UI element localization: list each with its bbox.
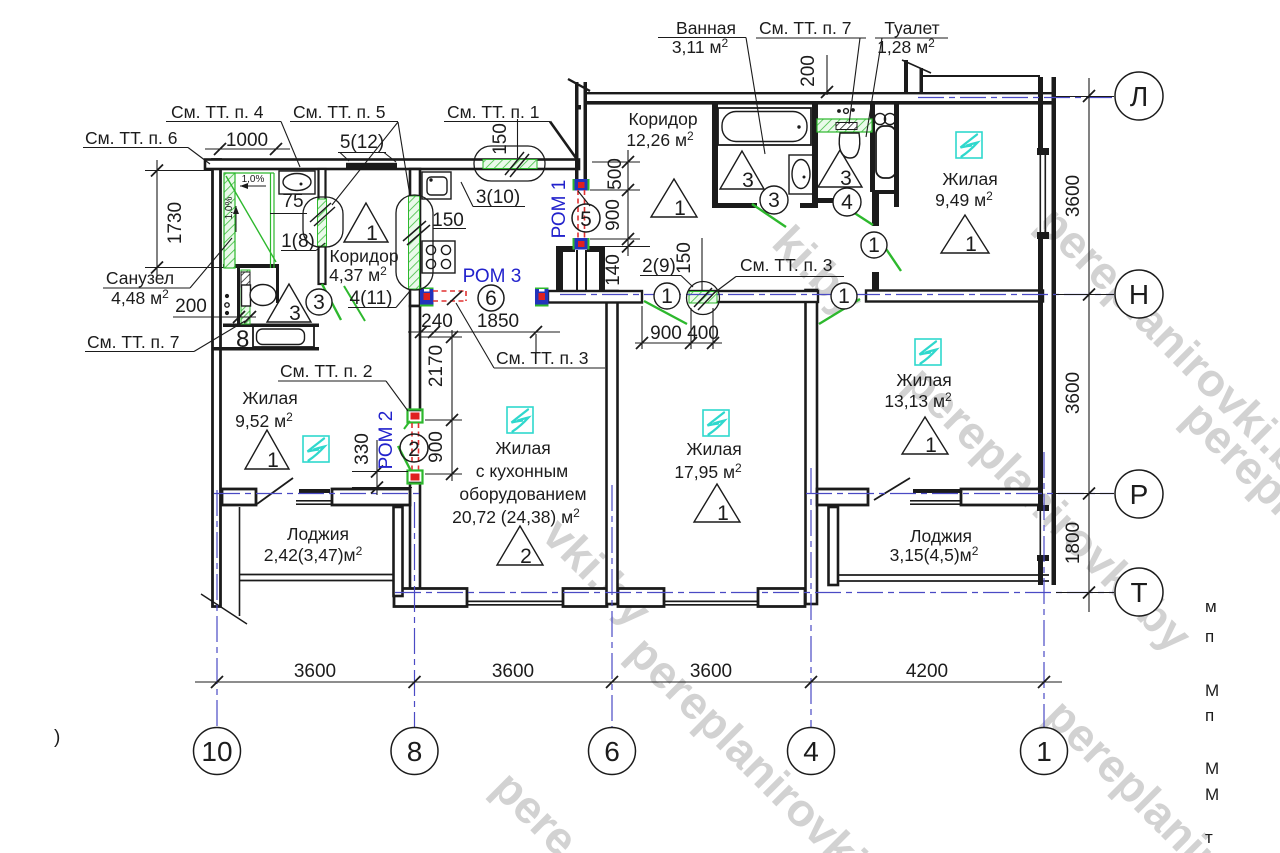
toilet partition dark hatch: [836, 123, 857, 130]
right outer wall outer band: [1052, 77, 1057, 585]
svg-text:3600: 3600: [1063, 175, 1084, 217]
triangle 1 room 9.49: [941, 215, 989, 253]
kitchen bottom window lines: [467, 601, 563, 603]
svg-text:1730: 1730: [165, 202, 186, 244]
svg-text:Лоджия: Лоджия: [910, 526, 972, 546]
top notch diagonal: [902, 60, 931, 73]
svg-text:Жилая: Жилая: [896, 370, 951, 390]
axis circle L: [1115, 72, 1163, 120]
POM MARKERS: [408, 179, 591, 484]
underline Sanuzel + leader: [103, 287, 190, 289]
left outer wall (hollow): [213, 160, 221, 607]
axis circle 8: [391, 728, 438, 775]
axis 4 vertical: [810, 468, 812, 727]
underline Tualet + leader: [875, 37, 948, 39]
door circle 3 bathroom: [760, 186, 788, 214]
dims 900 400: [635, 342, 722, 344]
svg-text:1: 1: [674, 197, 686, 220]
underline 5(12) + leaders: [338, 152, 386, 154]
svg-text:75: 75: [282, 191, 303, 212]
svg-text:6: 6: [485, 287, 497, 310]
underline 3(10) + leader: [473, 206, 525, 208]
svg-text:500: 500: [605, 158, 626, 190]
svg-text:3: 3: [840, 167, 852, 190]
water heater circles: [874, 113, 885, 124]
axis circle 6: [589, 728, 636, 775]
door circle 1 room 9.49: [861, 232, 887, 258]
axis 10 vertical: [216, 490, 218, 727]
toilet bottom wall piece: [817, 198, 840, 203]
svg-text:150: 150: [674, 242, 695, 274]
green double line right of shower: [270, 173, 272, 268]
sanuzel vertical line right of shower: [277, 264, 279, 303]
wall 9.52/kitchen middle segment (hollow): [410, 306, 420, 410]
svg-text:Лоджия: Лоджия: [287, 524, 349, 544]
svg-text:20,72 (24,38) м2: 20,72 (24,38) м2: [452, 506, 580, 527]
underline Sm TT p4 + leader: [166, 121, 281, 123]
axis connector lines right: [1056, 97, 1114, 593]
koridor inner green leaf: [344, 286, 365, 321]
loggia 2.42 left edge line: [239, 507, 241, 616]
underline Sm TT p7 left + leader: [85, 351, 194, 353]
svg-text:Коридор: Коридор: [628, 109, 697, 129]
POM1 red dashed lines: [577, 190, 579, 238]
axis P horizontal left: [214, 493, 420, 495]
svg-text:См. ТТ. п. 5: См. ТТ. п. 5: [293, 102, 386, 122]
svg-text:Жилая: Жилая: [242, 388, 297, 408]
svg-text:См. ТТ. п. 1: См. ТТ. п. 1: [447, 102, 540, 122]
axis circle 10: [194, 728, 241, 775]
corridor bottom wall H middle segment (hollow): [690, 291, 818, 302]
axis circle 4: [788, 728, 835, 775]
POM2 marker top: [408, 410, 423, 423]
svg-text:3600: 3600: [492, 661, 534, 682]
slope arrow vertical: [233, 206, 239, 232]
svg-text:150: 150: [432, 210, 464, 231]
dim 150 top ext line: [517, 119, 519, 158]
svg-text:1: 1: [838, 285, 850, 308]
door swing toilet green: [839, 203, 873, 225]
svg-text:М: М: [1205, 681, 1219, 700]
svg-text:См. ТТ. п. 3: См. ТТ. п. 3: [740, 255, 833, 275]
svg-text:п: п: [1205, 627, 1214, 646]
axis 6 vertical: [611, 485, 613, 727]
entry door stop square: [577, 105, 582, 110]
svg-text:4,37 м2: 4,37 м2: [329, 264, 387, 285]
13.13 bottom wall left pier (hollow): [817, 489, 868, 505]
13.13 window top band: [913, 489, 961, 493]
axis L horizontal: [918, 97, 1114, 99]
svg-text:См. ТТ. п. 3: См. ТТ. п. 3: [496, 348, 589, 368]
room 9.52 bottom wall right pier (hollow): [332, 489, 410, 505]
top ledge thin line: [920, 75, 1040, 77]
POM1 marker bottom: [573, 238, 576, 250]
svg-text:1,0%: 1,0%: [242, 174, 265, 185]
bubble B3 top wall: [474, 146, 545, 181]
toilet right wall: [870, 104, 875, 192]
svg-text:Ванная: Ванная: [676, 18, 736, 38]
17.95 bottom wall right pier (hollow): [758, 589, 805, 607]
13.13 window sill lines: [910, 500, 963, 502]
bubble B4 circle 2(9): [687, 282, 720, 315]
icon room 9.49: [956, 132, 982, 158]
entry door leaf: [568, 79, 590, 91]
17.95 bottom window lines: [664, 601, 758, 603]
svg-text:1: 1: [965, 233, 977, 256]
svg-text:330: 330: [352, 433, 373, 465]
top wall of left section (hollow): [205, 160, 579, 170]
dim 1730: [145, 170, 212, 172]
svg-text:3: 3: [289, 302, 301, 325]
loggia 2.42 parapet: [239, 574, 393, 576]
green top edge of shower: [224, 172, 274, 174]
break line bottom-left: [201, 594, 247, 624]
bathroom bottom wall right: [800, 203, 818, 208]
svg-text:900: 900: [603, 199, 624, 231]
svg-text:РОМ 2: РОМ 2: [376, 411, 397, 470]
svg-text:13,13 м2: 13,13 м2: [884, 390, 952, 411]
svg-text:2: 2: [520, 545, 532, 568]
svg-text:400: 400: [687, 323, 719, 344]
svg-text:4(11): 4(11): [350, 288, 393, 309]
13.13 bottom wall right pier (hollow): [961, 489, 1041, 505]
svg-text:5(12): 5(12): [340, 132, 384, 153]
shower room bottom wall: [223, 264, 277, 268]
POM1 small diagonal: [578, 191, 590, 206]
axis P horizontal right: [806, 493, 1114, 495]
wall sanuzel-koridor (hollow): [319, 169, 326, 284]
bubble B1 sanuzel wall: [303, 197, 343, 247]
POM1 wall column lines: [575, 82, 579, 180]
dim 1000: [205, 148, 290, 150]
svg-text:4: 4: [803, 736, 819, 767]
svg-text:9,52 м2: 9,52 м2: [235, 410, 293, 431]
vent shaft right bar: [599, 246, 605, 292]
corridor top wall (axis L, hollow): [587, 92, 1056, 94]
underline 4(11) + leader: [348, 307, 396, 309]
wall axis6 kitchen/17.95 (hollow): [607, 291, 618, 604]
door swing 17.95 green: [644, 301, 687, 324]
svg-text:6: 6: [604, 736, 620, 767]
underline 75: [270, 213, 307, 215]
svg-text:Т: Т: [1130, 577, 1147, 608]
svg-text:т: т: [1205, 828, 1213, 847]
sanuzel vanity: [279, 171, 315, 194]
svg-text:Жилая: Жилая: [686, 439, 741, 459]
axis T horizontal: [395, 592, 1114, 594]
svg-text:1: 1: [267, 449, 279, 472]
icon room 17.95: [703, 410, 729, 436]
triangle 1 koridor: [344, 203, 388, 242]
shower tray hatched band: [224, 173, 235, 268]
svg-text:3,11 м2: 3,11 м2: [672, 36, 729, 57]
green wall B2 koridor-kitchen: [409, 196, 420, 289]
svg-text:5: 5: [580, 208, 592, 231]
heater niche bottom: [874, 190, 899, 194]
triangle 1 koridor 12.26: [651, 179, 697, 217]
svg-text:РОМ 1: РОМ 1: [549, 180, 570, 239]
svg-text:3: 3: [313, 291, 325, 314]
svg-text:17,95 м2: 17,95 м2: [674, 461, 742, 482]
right ticks: [1083, 90, 1095, 599]
vent shaft left bar: [556, 246, 563, 292]
svg-text:8: 8: [236, 326, 249, 353]
svg-text:См. ТТ. п. 2: См. ТТ. п. 2: [280, 361, 373, 381]
svg-text:См. ТТ. п. 4: См. ТТ. п. 4: [171, 102, 264, 122]
underline Sm TT p2 + leader: [278, 380, 386, 382]
triangle 1 room 9.52: [245, 430, 289, 469]
door circle 4 toilet: [833, 188, 861, 216]
svg-text:900: 900: [426, 431, 447, 463]
svg-text:Р: Р: [1130, 479, 1149, 510]
door circle 1 room 13.13: [831, 283, 857, 309]
svg-text:1: 1: [1036, 736, 1052, 767]
svg-text:См. ТТ. п. 6: См. ТТ. п. 6: [85, 128, 178, 148]
svg-text:м: м: [1205, 597, 1217, 616]
GREEN: [224, 119, 901, 471]
kitchen stove: [422, 241, 455, 273]
POM3 marker right: [535, 288, 549, 291]
door circle 3 sanuzel: [306, 289, 332, 315]
corridor bottom wall H right segment (hollow): [866, 291, 1043, 302]
partition stub: [276, 264, 279, 303]
svg-text:9,49 м2: 9,49 м2: [935, 189, 993, 210]
balcony door leaf 13.13: [874, 478, 910, 500]
svg-text:2170: 2170: [426, 345, 447, 387]
circle 5 POM1: [572, 204, 600, 232]
svg-text:8: 8: [407, 736, 423, 767]
green wall W2 top: [483, 160, 537, 169]
POM3 marker left: [420, 288, 434, 291]
underline Sm TT p5 + leaders: [290, 121, 398, 123]
WALLS: [205, 60, 1056, 607]
corridor bottom wall H left segment (hollow): [548, 291, 642, 303]
loggia 2.42 right wall (hollow): [394, 507, 403, 596]
dim 330: [352, 471, 408, 473]
svg-text:1: 1: [717, 502, 729, 525]
svg-text:с кухонным: с кухонным: [476, 461, 568, 481]
door swing POM2 green: [398, 446, 411, 471]
washing niche dark hatch top: [241, 272, 250, 287]
door swing 13.13 green: [819, 299, 860, 324]
svg-text:Коридор: Коридор: [329, 246, 398, 266]
wall 9.52/kitchen lower segment (hollow): [410, 483, 420, 606]
svg-text:): ): [54, 727, 60, 748]
svg-text:1800: 1800: [1063, 522, 1084, 564]
underline Vannaya + leader: [658, 37, 746, 39]
sanuzel dots: [226, 295, 229, 298]
svg-text:3600: 3600: [1063, 372, 1084, 414]
svg-text:1,28 м2: 1,28 м2: [877, 36, 935, 57]
svg-text:См. ТТ. п. 7: См. ТТ. п. 7: [87, 332, 180, 352]
dims 2170 900 kitchen: [451, 330, 453, 481]
washing niche hatched band: [241, 270, 250, 324]
window 5(12) dark band: [346, 163, 397, 169]
svg-text:1: 1: [366, 222, 378, 245]
water heater tank: [876, 126, 896, 178]
svg-text:200: 200: [175, 296, 207, 317]
svg-text:оборудованием: оборудованием: [459, 484, 586, 504]
triangle 1 room 13.13: [902, 417, 948, 454]
dim 200 sanuzel: [173, 316, 256, 318]
underline Sm TT p7 top + leader: [756, 37, 866, 39]
circle 2 POM2: [400, 434, 428, 462]
triangle 1 room 17.95: [694, 484, 740, 522]
17.95 bottom wall left pier (hollow): [618, 589, 664, 607]
room 9.52 window sill lines: [296, 500, 334, 502]
niche wall line: [237, 268, 240, 324]
wall koridor-kitchen upper (hollow): [410, 169, 420, 306]
bubble B2 koridor wall: [396, 195, 433, 290]
svg-text:3: 3: [742, 169, 754, 192]
svg-text:РОМ 3: РОМ 3: [463, 266, 522, 287]
bathroom left wall: [712, 104, 718, 208]
loggia 3.15 parapet: [839, 574, 1049, 576]
POM3 dashed rectangle: [433, 291, 466, 301]
axis circle P: [1115, 470, 1163, 518]
sanuzel bath: [253, 326, 314, 347]
FIXTURES: [225, 108, 896, 347]
svg-text:2,42(3,47)м2: 2,42(3,47)м2: [264, 544, 363, 565]
vent shaft top bar: [563, 246, 575, 252]
toilet dots: [838, 110, 840, 112]
svg-text:2: 2: [408, 438, 420, 461]
slope arrow horizontal: [240, 183, 266, 189]
POM2 red dashed lines: [411, 423, 413, 471]
right dimension line: [1088, 78, 1090, 612]
wall axis4 17.95/13.13 (hollow): [806, 290, 818, 604]
bathroom/toilet wall: [812, 104, 818, 203]
kitchen sink: [422, 172, 451, 199]
WATERMARKS: [483, 195, 1280, 853]
icon room 13.13: [915, 339, 941, 365]
circle 6 POM3: [478, 285, 504, 311]
underline 2(9) + leader: [640, 275, 681, 277]
dim 150 2(9) ext line: [701, 238, 703, 291]
axis circle 1: [1021, 728, 1068, 775]
kitchen bottom wall left pier (hollow): [394, 589, 467, 607]
svg-text:12,26 м2: 12,26 м2: [626, 129, 694, 150]
svg-text:240: 240: [421, 311, 453, 332]
top notch vertical 1: [904, 60, 908, 94]
dim 200 toilet ext line: [826, 55, 828, 95]
bottom dimension line: [195, 681, 1062, 683]
svg-text:3,15(4,5)м2: 3,15(4,5)м2: [890, 544, 979, 565]
svg-text:4,48 м2: 4,48 м2: [111, 287, 169, 308]
bathroom sink: [789, 155, 813, 194]
POM1 marker top: [573, 179, 576, 191]
underline 1(8) + leader: [281, 250, 316, 252]
svg-text:М: М: [1205, 759, 1219, 778]
svg-text:1,0%: 1,0%: [224, 196, 235, 219]
svg-text:3600: 3600: [690, 661, 732, 682]
bathroom tub: [718, 108, 811, 145]
svg-text:10: 10: [201, 736, 232, 767]
underline Sm TT p6 + leader: [83, 147, 188, 149]
right wall window 9.49 punch: [1038, 155, 1044, 232]
triangle 3 bathroom: [720, 151, 764, 189]
svg-text:140: 140: [603, 254, 624, 286]
door swing 9.49 green: [876, 234, 901, 271]
sanuzel toilet: [242, 285, 251, 306]
svg-text:3600: 3600: [294, 661, 336, 682]
door swing bathroom green: [752, 204, 786, 227]
axis 8 vertical: [414, 502, 416, 727]
icon room 9.52: [303, 436, 329, 462]
POM3 slash tick: [447, 291, 462, 305]
bath niche top line: [223, 324, 319, 328]
svg-text:900: 900: [650, 323, 682, 344]
heater niche right wall: [894, 104, 899, 207]
kitchen bottom wall right pier (hollow): [563, 589, 607, 607]
svg-text:4200: 4200: [906, 661, 948, 682]
balcony door leaf 9.52: [257, 478, 293, 504]
svg-text:См. ТТ. п. 7: См. ТТ. п. 7: [759, 18, 852, 38]
axis 1 vertical: [1043, 452, 1045, 727]
door swing sanuzel green: [322, 284, 341, 320]
underline Sm TT p1 + bold leader: [444, 121, 550, 123]
right wall loggia window punch: [1038, 510, 1044, 557]
svg-text:1: 1: [661, 285, 673, 308]
dims 500 900 140: [627, 150, 629, 256]
green wall B1 sanuzel-koridor: [318, 199, 327, 246]
svg-text:1(8): 1(8): [281, 231, 315, 252]
POM2 marker bottom: [408, 471, 423, 484]
top notch vertical 2: [920, 68, 924, 94]
icon kitchen room: [507, 407, 533, 433]
svg-text:1: 1: [925, 434, 937, 457]
underline Sm TT p3 lower + leader: [494, 367, 605, 369]
svg-text:1000: 1000: [226, 130, 268, 151]
bath niche bottom line: [212, 347, 319, 351]
toilet bowl: [839, 133, 860, 158]
room 9.52 window top band: [299, 489, 330, 493]
svg-text:Жилая: Жилая: [495, 438, 550, 458]
axis circle H: [1115, 270, 1163, 318]
svg-text:200: 200: [798, 55, 819, 87]
triangle 3 toilet: [818, 150, 862, 187]
green opening 2(9) band: [689, 292, 717, 304]
triangle 2 kitchen room: [497, 526, 543, 565]
svg-text:Санузел: Санузел: [106, 268, 174, 288]
DIMENSIONS: [83, 38, 1114, 689]
BUBBLES TRIANGLES CIRCLES: [194, 72, 1164, 775]
svg-text:Туалет: Туалет: [884, 18, 939, 38]
loggia 3.15 left wall (hollow): [829, 507, 839, 585]
vent shaft inner column lines: [576, 250, 578, 292]
svg-text:Жилая: Жилая: [942, 169, 997, 189]
room 9.49 left wall stub: [872, 272, 879, 290]
axis circle T: [1115, 568, 1163, 616]
svg-text:4: 4: [841, 191, 853, 214]
svg-text:М: М: [1205, 785, 1219, 804]
svg-text:3(10): 3(10): [476, 187, 520, 208]
room 9.52 bottom wall left pier (hollow): [222, 489, 256, 505]
svg-text:Л: Л: [1130, 81, 1148, 112]
right outer wall inner band: [1038, 77, 1043, 585]
svg-text:150: 150: [490, 123, 511, 155]
dims 240 1850: [408, 331, 560, 333]
toilet green partition: [817, 119, 872, 132]
door circle 1 opening 2(9): [654, 283, 680, 309]
axis H horizontal: [560, 294, 1114, 296]
svg-text:2(9): 2(9): [642, 256, 676, 277]
underline Sm TT p3 upper + leader: [736, 276, 844, 278]
svg-text:Н: Н: [1129, 279, 1149, 310]
underline 150 koridor: [433, 228, 466, 230]
shower slope diagonal: [226, 176, 276, 262]
room 9.49 left wall upper piece: [872, 192, 879, 226]
